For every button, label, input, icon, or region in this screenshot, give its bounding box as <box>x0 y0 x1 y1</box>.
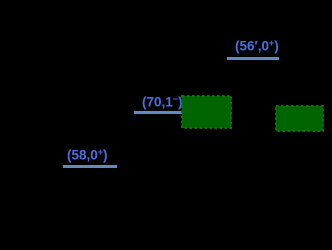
level label (58,0+) <box>67 146 108 163</box>
level line (56',0+) <box>227 57 279 60</box>
resonance width box 2 <box>274 104 325 133</box>
level line (70,1-) <box>134 111 182 114</box>
level label (56',0+) <box>235 37 279 54</box>
level line (58,0+) <box>63 165 117 168</box>
level label (70,1-) <box>142 93 183 110</box>
resonance width box 1 <box>180 94 233 130</box>
